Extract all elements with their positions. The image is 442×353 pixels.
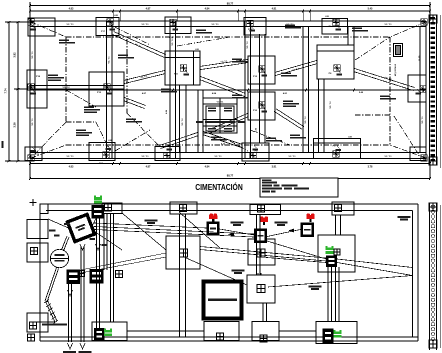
bottom connection lines between footing boxes <box>127 330 204 332</box>
4Ø8 bold labels near columns <box>30 28 36 30</box>
svg-text:VC. T-1: VC. T-1 <box>141 156 149 158</box>
vertical beam V1 x=109 <box>106 21 108 159</box>
green valves <box>94 197 102 200</box>
svg-text:VC. T-2: VC. T-2 <box>182 118 184 126</box>
footing box P17 top-left <box>28 18 55 36</box>
left dimension 7.74 <box>8 22 10 161</box>
sloped buried pipe to cistern <box>45 268 57 302</box>
cistern circle <box>50 249 68 267</box>
diamond connections <box>62 236 68 250</box>
small plus at G2 <box>334 249 340 255</box>
svg-text:VC. T-1: VC. T-1 <box>217 102 225 104</box>
bottom plan frame <box>40 203 418 205</box>
svg-text:VC. T-1: VC. T-1 <box>66 156 74 158</box>
big interior square 3 <box>318 235 355 272</box>
bottom dimension segmented <box>30 163 430 165</box>
left dim tiny label <box>2 141 4 148</box>
dash-dot corner diagonals <box>31 22 66 37</box>
svg-text:4.83: 4.83 <box>69 7 74 10</box>
vertical beam V4 x=248 <box>244 21 246 159</box>
extension verticals top dim <box>112 14 114 21</box>
svg-text:88.77: 88.77 <box>227 174 234 178</box>
vertical beam P12-P10 x=262 <box>259 34 261 143</box>
interior footing box P10 <box>248 92 275 120</box>
svg-text:4.83: 4.83 <box>69 166 74 169</box>
vertical beam below P8 x=321 <box>318 79 320 153</box>
big interior square 1 <box>166 236 200 269</box>
interior footing box P12 <box>248 56 275 84</box>
dimension line segmented top <box>30 10 430 12</box>
right legend small symbol <box>394 44 403 57</box>
top edge columns bottom plan <box>105 204 112 211</box>
footing boxes bottom edge <box>25 147 42 161</box>
svg-text:4.88: 4.88 <box>348 135 351 138</box>
svg-text:3.82: 3.82 <box>13 52 17 58</box>
svg-text:VC. T-1: VC. T-1 <box>288 156 296 158</box>
svg-text:4.87: 4.87 <box>146 166 151 169</box>
svg-text:VC. T-1: VC. T-1 <box>422 116 424 124</box>
vertical beam below P16 x=183 <box>179 85 181 153</box>
svg-text:VC. T-1: VC. T-1 <box>214 156 222 158</box>
svg-text:4.88: 4.88 <box>114 14 117 17</box>
big interior square 2 <box>248 239 275 265</box>
under-edge labels <box>63 351 76 353</box>
svg-text:VC. T-2: VC. T-2 <box>247 41 249 49</box>
rotated registry diamond <box>67 214 94 241</box>
svg-text:4.88: 4.88 <box>325 15 328 18</box>
svg-text:3.81: 3.81 <box>272 166 277 169</box>
dash-dot interior lines <box>126 39 128 113</box>
footing box right edge <box>408 75 426 102</box>
spec box <box>260 178 338 197</box>
svg-text:88.77: 88.77 <box>227 2 234 6</box>
valve box bottom left <box>94 328 105 341</box>
svg-text:4.84: 4.84 <box>205 166 210 169</box>
down arrows <box>67 343 72 349</box>
big interior square 4 <box>247 275 275 303</box>
red faucets <box>209 213 213 217</box>
pump box B <box>90 269 104 284</box>
mid horizontal dim line <box>30 89 426 91</box>
svg-text:4.88: 4.88 <box>195 48 198 51</box>
footing box top x=173 <box>165 17 191 34</box>
svg-text:4.81: 4.81 <box>272 7 277 10</box>
svg-text:CIMENTACIÓN: CIMENTACIÓN <box>195 183 243 192</box>
hatched column symbols top plan <box>28 19 35 26</box>
arrow marks on pipes <box>288 229 294 233</box>
svg-text:3.36: 3.36 <box>13 122 17 128</box>
dimension line overall top 88.77 <box>30 5 430 7</box>
svg-text:ARQ. DETALLE: ARQ. DETALLE <box>394 63 397 76</box>
svg-text:VC. T-1: VC. T-1 <box>384 24 392 26</box>
valve box G2 <box>326 256 337 268</box>
svg-text:VC. T-2: VC. T-2 <box>330 101 332 109</box>
frame outer beams top plan <box>30 20 426 22</box>
svg-text:VC. T-1: VC. T-1 <box>384 156 392 158</box>
svg-text:VC. T-1: VC. T-1 <box>141 24 149 26</box>
svg-text:VC. T-1: VC. T-1 <box>211 24 219 26</box>
svg-text:4.88: 4.88 <box>108 139 111 142</box>
svg-text:VC. T-1: VC. T-1 <box>32 118 34 126</box>
right hatch strip bottom plan <box>429 203 431 350</box>
black valve box under green1 <box>92 205 105 219</box>
bottom plan top edge footing boxes <box>40 204 48 214</box>
svg-text:VC. T-2: VC. T-2 <box>305 116 307 124</box>
svg-text:4.84: 4.84 <box>205 7 210 10</box>
svg-text:7.74: 7.74 <box>4 88 8 94</box>
dash-dot inner offset rectangle <box>66 36 390 38</box>
vertical beam V2 x=173 <box>169 21 171 159</box>
svg-text:VC. T-1: VC. T-1 <box>66 24 74 26</box>
footing box left edge P18 <box>27 70 47 108</box>
svg-text:4.87: 4.87 <box>146 7 151 10</box>
vertical beam V5 x=306 <box>302 27 304 153</box>
footing box P14 top <box>96 18 119 36</box>
interior footing box P15 <box>89 72 124 106</box>
right hatch strip top plan <box>429 15 431 165</box>
pipe labels bottom plan <box>145 220 158 222</box>
vertical beam V3 x=200 <box>197 90 199 153</box>
valve box mid B <box>254 229 267 244</box>
valve box bottom right <box>323 329 334 344</box>
bottom edge footing boxes <box>92 322 127 341</box>
vertical pipes <box>96 218 98 331</box>
svg-text:VC. T-1: VC. T-1 <box>32 51 34 59</box>
left dimension segmented 3.82 / 3.36 <box>17 22 19 161</box>
svg-text:VC. T-2: VC. T-2 <box>62 87 70 89</box>
tiny annotation blocks <box>59 39 69 41</box>
svg-text:3.78: 3.78 <box>368 166 373 169</box>
schedule table center <box>203 98 237 133</box>
vertical beam stub x=351 <box>347 27 349 46</box>
interior footing box P16 <box>165 51 200 85</box>
svg-text:5.45: 5.45 <box>368 7 373 10</box>
footing box top x=250 <box>244 18 266 36</box>
svg-text:5.40: 5.40 <box>419 55 422 60</box>
interior footing box P8 <box>317 45 354 79</box>
svg-text:VC. T-1: VC. T-1 <box>109 56 111 64</box>
diagonal tie beams <box>114 32 166 55</box>
left edge footing boxes <box>27 220 48 239</box>
valve box under red C <box>301 223 315 238</box>
pump box A <box>67 270 81 285</box>
valve box under red A <box>207 222 220 236</box>
footing box P6 top <box>322 19 348 35</box>
pipe diagonals <box>94 227 254 235</box>
POZO DE ABSORCION <box>204 282 242 319</box>
